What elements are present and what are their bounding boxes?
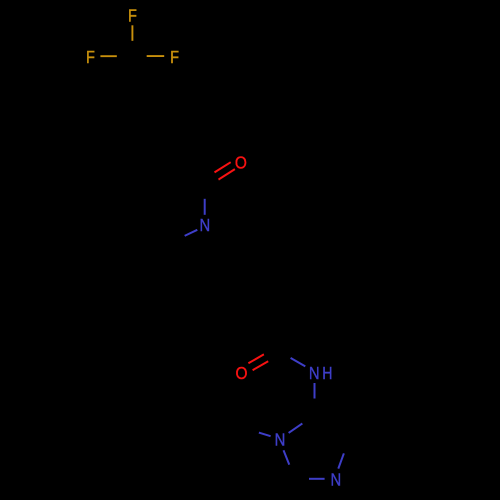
alkyl chain to second carbonyl (carbon, invisible on black) bbox=[168, 246, 277, 351]
svg-text:O: O bbox=[235, 153, 247, 173]
bond C-F top, carbon half bbox=[131, 41, 133, 57]
bond C-F right, carbon half bbox=[132, 55, 146, 57]
double bond C2'=O carbon halves (invisible on black) bbox=[264, 351, 278, 355]
bond N-CH2, carbon half (invisible on black) bbox=[168, 236, 184, 246]
svg-text:H: H bbox=[322, 363, 332, 383]
bond C2'-NH, nitrogen half bbox=[291, 358, 306, 367]
benzene ring of 3-(trifluoromethyl)phenyl (carbon, invisible on black) bbox=[96, 98, 169, 182]
double bond C2'=O line 2, oxygen half bbox=[253, 361, 269, 370]
bond N-CH2, nitrogen half bbox=[185, 230, 198, 236]
double bond C1'=O carbon halves (invisible on black) bbox=[205, 180, 219, 183]
bond C5-N1, nitrogen half bbox=[289, 423, 303, 433]
bond N3-C4, nitrogen half bbox=[338, 453, 344, 468]
svg-text:O: O bbox=[236, 363, 248, 383]
bond C5-N1, carbon half (invisible on black) bbox=[302, 414, 314, 423]
svg-text:F: F bbox=[170, 47, 179, 67]
bond N3-C4, carbon half (invisible on black) bbox=[344, 439, 348, 454]
bond NH-C5 of imidazole, carbon half (invisible on black) bbox=[313, 399, 315, 415]
bond CF3 carbon to benzene ring (carbon, invisible on black) bbox=[131, 56, 133, 98]
svg-text:F: F bbox=[128, 6, 137, 26]
bond C-F right, fluorine half bbox=[147, 55, 165, 57]
double bond C1'=O line 1, oxygen half bbox=[215, 162, 231, 172]
svg-text:N: N bbox=[330, 469, 341, 489]
bond C1'-N, nitrogen half bbox=[204, 199, 206, 215]
bond C2'-NH, carbon half (invisible on black) bbox=[278, 351, 291, 358]
bond C1'-N, carbon half (invisible on black) bbox=[204, 183, 206, 199]
double bond C1'=O line 2, oxygen half bbox=[218, 169, 235, 180]
bond ring to carbonyl C1' (carbon, invisible on black) bbox=[169, 161, 205, 183]
bond N1-CH3, carbon half (invisible on black) bbox=[240, 426, 258, 433]
bond C2=N3, carbon half (invisible on black) bbox=[293, 478, 309, 480]
svg-text:N: N bbox=[309, 363, 320, 383]
bond N1-C2, carbon half (invisible on black) bbox=[289, 465, 293, 479]
bond C-F left, fluorine half bbox=[100, 55, 117, 57]
bond NH-C5 of imidazole, nitrogen half bbox=[314, 383, 316, 399]
svg-text:N: N bbox=[275, 429, 286, 449]
svg-text:N: N bbox=[199, 215, 210, 235]
bond N1-CH3, nitrogen half bbox=[259, 433, 271, 437]
bond C-F top, fluorine half bbox=[131, 25, 133, 41]
bond C-F left, carbon half bbox=[117, 55, 132, 57]
imidazole C4=C5 double bond (carbon, invisible on black) bbox=[314, 414, 348, 439]
double bond C2'=O line 1, oxygen half bbox=[248, 354, 264, 363]
bond C2=N3, nitrogen half bbox=[309, 478, 325, 480]
svg-text:F: F bbox=[86, 47, 95, 67]
bond N1-C2, nitrogen half bbox=[284, 450, 290, 464]
